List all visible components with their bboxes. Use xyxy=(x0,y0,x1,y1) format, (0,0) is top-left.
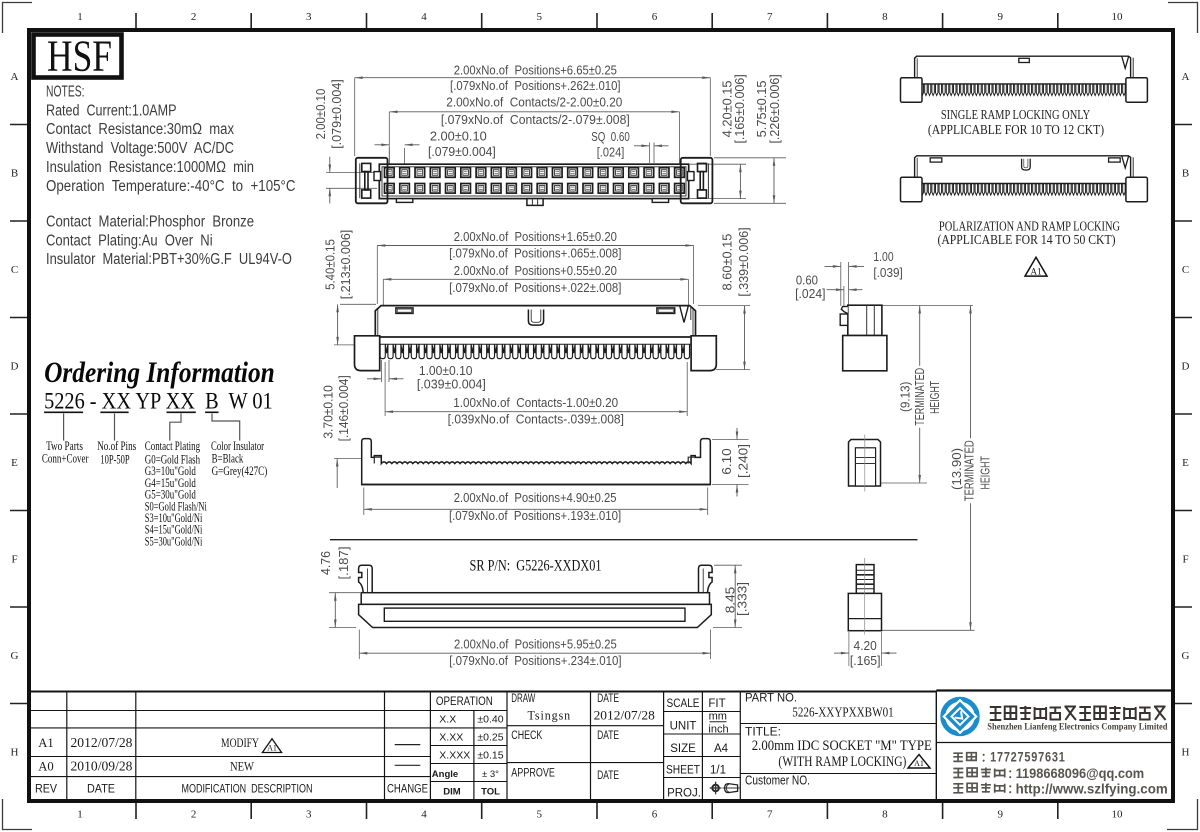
svg-text:[.165±0.006]: [.165±0.006] xyxy=(732,74,747,143)
svg-text:Tsingsn: Tsingsn xyxy=(528,707,572,722)
svg-text:REV: REV xyxy=(35,784,57,796)
svg-text:2.00xNo.of Positions+6.65±0.2: 2.00xNo.of Positions+6.65±0.25 xyxy=(454,63,617,78)
svg-text:SINGLE RAMP LOCKING ONLY: SINGLE RAMP LOCKING ONLY xyxy=(941,107,1090,122)
svg-text:PROJ.: PROJ. xyxy=(667,788,701,800)
svg-text:17727597631: 17727597631 xyxy=(990,749,1066,765)
svg-text:SR P/N: G5226-XXDX01: SR P/N: G5226-XXDX01 xyxy=(470,558,602,575)
svg-text:H: H xyxy=(11,747,19,759)
svg-text:± 3°: ± 3° xyxy=(482,769,499,780)
svg-text:TERMINATED: TERMINATED xyxy=(963,440,977,501)
svg-text:PART NO.: PART NO. xyxy=(745,691,797,705)
svg-text:2: 2 xyxy=(191,11,197,23)
svg-text:[.240]: [.240] xyxy=(736,444,751,478)
svg-text:2012/07/28: 2012/07/28 xyxy=(594,708,655,723)
svg-text:[.079xNo.of Positions+.193±.0: [.079xNo.of Positions+.193±.010] xyxy=(449,508,621,523)
svg-text:UNIT: UNIT xyxy=(670,721,697,733)
svg-text:[.024]: [.024] xyxy=(597,144,625,159)
svg-text:3: 3 xyxy=(306,809,312,821)
svg-text:B: B xyxy=(1182,168,1189,180)
svg-text:http://www.szlfying.com: http://www.szlfying.com xyxy=(1016,781,1168,797)
svg-text:E: E xyxy=(11,457,18,469)
svg-text:8: 8 xyxy=(882,11,888,23)
svg-text:G: G xyxy=(11,650,19,662)
svg-text:CHECK: CHECK xyxy=(511,730,542,742)
svg-text:A4: A4 xyxy=(714,743,729,755)
svg-text:[.213±0.006]: [.213±0.006] xyxy=(338,230,353,300)
svg-text:5226 - XX YP XX B W 01: 5226 - XX YP XX B W 01 xyxy=(44,389,273,414)
svg-text:[.079±0.004]: [.079±0.004] xyxy=(329,79,344,149)
svg-text:TERMINATED: TERMINATED xyxy=(913,368,927,426)
svg-text:6.10: 6.10 xyxy=(719,448,734,475)
svg-text:F: F xyxy=(1182,554,1188,566)
svg-text:2: 2 xyxy=(191,809,197,821)
svg-text:2.00xNo.of Positions+5.95±0.2: 2.00xNo.of Positions+5.95±0.25 xyxy=(454,637,617,652)
svg-text:5: 5 xyxy=(537,809,543,821)
svg-text:TITLE:: TITLE: xyxy=(745,725,781,739)
svg-text:2.00xNo.of Contacts/2-2.00±0.: 2.00xNo.of Contacts/2-2.00±0.20 xyxy=(446,95,622,110)
svg-text:[.079xNo.of Positions+.065±.0: [.079xNo.of Positions+.065±.008] xyxy=(449,246,621,261)
svg-text:10: 10 xyxy=(1112,11,1124,23)
svg-text:1: 1 xyxy=(77,11,83,23)
svg-text:TOL: TOL xyxy=(481,787,500,798)
svg-text:inch: inch xyxy=(708,724,728,736)
svg-text:7: 7 xyxy=(767,809,773,821)
svg-text:[.333]: [.333] xyxy=(735,582,750,616)
svg-text:[.079xNo.of Positions+.262±.0: [.079xNo.of Positions+.262±.010] xyxy=(450,78,621,93)
svg-text:Operation Temperature:-40°C: Operation Temperature:-40°C to +105°C xyxy=(46,178,296,195)
svg-text:MODIFICATION DESCRIPTION: MODIFICATION DESCRIPTION xyxy=(182,784,313,796)
svg-text:2010/09/28: 2010/09/28 xyxy=(71,759,133,774)
svg-text:DRAW: DRAW xyxy=(511,693,535,705)
svg-text:SIZE: SIZE xyxy=(670,743,696,755)
svg-text:4: 4 xyxy=(421,11,427,23)
svg-text:A0: A0 xyxy=(38,759,54,774)
svg-text:SCALE: SCALE xyxy=(667,698,700,710)
svg-text:A1: A1 xyxy=(267,744,277,753)
svg-text:Rated Current:1.0AMP: Rated Current:1.0AMP xyxy=(46,102,177,119)
svg-text:±0.25: ±0.25 xyxy=(477,732,503,744)
svg-text:±0.15: ±0.15 xyxy=(477,750,503,762)
svg-text:A1: A1 xyxy=(38,735,54,750)
svg-text:Withstand Voltage:500V AC/DC: Withstand Voltage:500V AC/DC xyxy=(46,140,234,157)
svg-text:HSF: HSF xyxy=(47,32,112,81)
svg-text:NOTES:: NOTES: xyxy=(46,84,85,101)
svg-text:[.339±0.006]: [.339±0.006] xyxy=(736,227,751,296)
svg-text:Contact Material:Phosphor Br: Contact Material:Phosphor Bronze xyxy=(46,214,254,231)
svg-text:[.039±0.004]: [.039±0.004] xyxy=(417,377,486,392)
svg-text:DATE: DATE xyxy=(597,730,619,742)
svg-text:3: 3 xyxy=(306,11,312,23)
svg-text:Angle: Angle xyxy=(432,769,458,780)
svg-text:[.187]: [.187] xyxy=(336,547,351,580)
svg-text:[.079xNo.of Contacts/2-.079±.: [.079xNo.of Contacts/2-.079±.008] xyxy=(441,112,630,127)
svg-text:2.00xNo.of Positions+0.55±0.2: 2.00xNo.of Positions+0.55±0.20 xyxy=(454,263,617,278)
svg-text:1.00: 1.00 xyxy=(873,249,893,264)
svg-text:5.40±0.15: 5.40±0.15 xyxy=(323,239,338,290)
svg-text:5226-XXYPXXBW01: 5226-XXYPXXBW01 xyxy=(792,706,894,721)
svg-text:2.00±0.10: 2.00±0.10 xyxy=(313,89,328,140)
svg-text:3.70±0.10: 3.70±0.10 xyxy=(320,385,335,439)
svg-text:Contact Plating:Au Over Ni: Contact Plating:Au Over Ni xyxy=(46,232,213,249)
svg-text:1198668096@qq.com: 1198668096@qq.com xyxy=(1016,765,1145,781)
svg-text:Ordering Information: Ordering Information xyxy=(44,356,275,389)
svg-text:[.079±0.004]: [.079±0.004] xyxy=(428,144,496,159)
svg-text:NEW: NEW xyxy=(230,759,255,774)
svg-text:OPERATION: OPERATION xyxy=(436,696,493,708)
svg-text:4: 4 xyxy=(421,809,427,821)
svg-text:SHEET: SHEET xyxy=(666,765,700,777)
svg-text:A: A xyxy=(11,71,19,83)
svg-text:DATE: DATE xyxy=(597,770,619,782)
svg-text:2.00xNo.of Positions+4.90±0.2: 2.00xNo.of Positions+4.90±0.25 xyxy=(454,490,617,505)
svg-text:[.024]: [.024] xyxy=(795,286,825,301)
svg-text:[.226±0.006]: [.226±0.006] xyxy=(767,74,782,143)
svg-text:(APPLICABLE FOR 10 TO 12 CKT): (APPLICABLE FOR 10 TO 12 CKT) xyxy=(928,122,1104,137)
svg-text:HEIGHT: HEIGHT xyxy=(979,456,993,490)
svg-text:7: 7 xyxy=(767,11,773,23)
svg-text:CHANGE: CHANGE xyxy=(387,784,428,796)
svg-text:[.079xNo.of Positions+.234±.0: [.079xNo.of Positions+.234±.010] xyxy=(449,653,621,668)
svg-text:A1: A1 xyxy=(914,759,924,768)
svg-text:Shenzhen Lianfeng Electronics: Shenzhen Lianfeng Electronics Company Li… xyxy=(987,723,1168,733)
svg-text:5: 5 xyxy=(537,11,543,23)
svg-text:DIM: DIM xyxy=(443,787,461,798)
svg-text:8.60±0.15: 8.60±0.15 xyxy=(719,234,734,291)
svg-text:F: F xyxy=(11,554,17,566)
svg-text:H: H xyxy=(1182,747,1190,759)
svg-text:X.XXX: X.XXX xyxy=(439,750,470,762)
svg-text:(WITH RAMP LOCKING): (WITH RAMP LOCKING) xyxy=(778,754,906,770)
svg-text:G: G xyxy=(1182,650,1190,662)
svg-text:6: 6 xyxy=(652,809,658,821)
svg-text:9: 9 xyxy=(997,11,1003,23)
svg-text:2.00mm IDC SOCKET "M" TYPE: 2.00mm IDC SOCKET "M" TYPE xyxy=(752,738,932,754)
svg-text:S5=30u"Gold/Ni: S5=30u"Gold/Ni xyxy=(145,534,203,548)
svg-text:1/1: 1/1 xyxy=(710,765,726,777)
svg-text:E: E xyxy=(1182,457,1189,469)
svg-text:[.165]: [.165] xyxy=(850,653,881,668)
svg-text:D: D xyxy=(11,361,19,373)
svg-text:Conn+Cover: Conn+Cover xyxy=(42,452,89,466)
svg-text:(9.13): (9.13) xyxy=(898,382,913,413)
svg-text:DATE: DATE xyxy=(597,693,619,705)
svg-text:X.X: X.X xyxy=(439,714,456,726)
svg-text:6: 6 xyxy=(652,11,658,23)
svg-text:MODIFY: MODIFY xyxy=(221,735,259,750)
svg-text:2.00±0.10: 2.00±0.10 xyxy=(430,129,487,144)
svg-text:4.20: 4.20 xyxy=(854,638,877,653)
svg-text:8: 8 xyxy=(882,809,888,821)
svg-text:FIT: FIT xyxy=(708,698,725,710)
svg-text:SQ 0.60: SQ 0.60 xyxy=(591,129,630,144)
svg-text:Insulation Resistance:1000MΩ: Insulation Resistance:1000MΩ min xyxy=(46,159,254,176)
svg-text:No.of Pins: No.of Pins xyxy=(97,439,136,453)
svg-text:4.76: 4.76 xyxy=(318,551,333,575)
svg-text:Contact Resistance:30mΩ max: Contact Resistance:30mΩ max xyxy=(46,121,234,138)
svg-text:1.00xNo.of Contacts-1.00±0.20: 1.00xNo.of Contacts-1.00±0.20 xyxy=(453,395,618,410)
svg-text:C: C xyxy=(1182,264,1189,276)
svg-text:D: D xyxy=(1182,361,1190,373)
svg-text:HEIGHT: HEIGHT xyxy=(928,381,942,414)
svg-text:(APPLICABLE FOR 14 TO 50 CKT): (APPLICABLE FOR 14 TO 50 CKT) xyxy=(937,232,1115,247)
svg-text:[.146±0.004]: [.146±0.004] xyxy=(336,375,351,441)
svg-text:Customer NO.: Customer NO. xyxy=(745,774,810,788)
svg-text:A1: A1 xyxy=(1031,267,1042,277)
svg-text:APPROVE: APPROVE xyxy=(511,768,555,780)
svg-text:10P-50P: 10P-50P xyxy=(100,453,129,467)
svg-text:B: B xyxy=(11,168,18,180)
svg-text:9: 9 xyxy=(997,809,1003,821)
svg-text:A: A xyxy=(1182,71,1190,83)
svg-text:2.00xNo.of Positions+1.65±0.2: 2.00xNo.of Positions+1.65±0.20 xyxy=(454,229,617,244)
svg-text:X.XX: X.XX xyxy=(439,732,463,744)
svg-text:[.039]: [.039] xyxy=(873,265,902,280)
svg-text:Contact Plating: Contact Plating xyxy=(145,439,201,453)
svg-text:G=Grey(427C): G=Grey(427C) xyxy=(212,464,268,478)
svg-text:10: 10 xyxy=(1112,809,1124,821)
svg-text:C: C xyxy=(11,264,18,276)
svg-text:mm: mm xyxy=(709,711,727,723)
svg-text:2012/07/28: 2012/07/28 xyxy=(71,735,133,750)
svg-text:DATE: DATE xyxy=(87,784,115,796)
svg-text:1: 1 xyxy=(77,809,83,821)
svg-text:[.079xNo.of Positions+.022±.0: [.079xNo.of Positions+.022±.008] xyxy=(449,280,621,295)
svg-text:Insulator Material:PBT+30%G.F: Insulator Material:PBT+30%G.F UL94V-O xyxy=(46,251,292,268)
svg-text:±0.40: ±0.40 xyxy=(477,714,503,726)
svg-text:[.039xNo.of Contacts-.039±.00: [.039xNo.of Contacts-.039±.008] xyxy=(448,412,624,427)
